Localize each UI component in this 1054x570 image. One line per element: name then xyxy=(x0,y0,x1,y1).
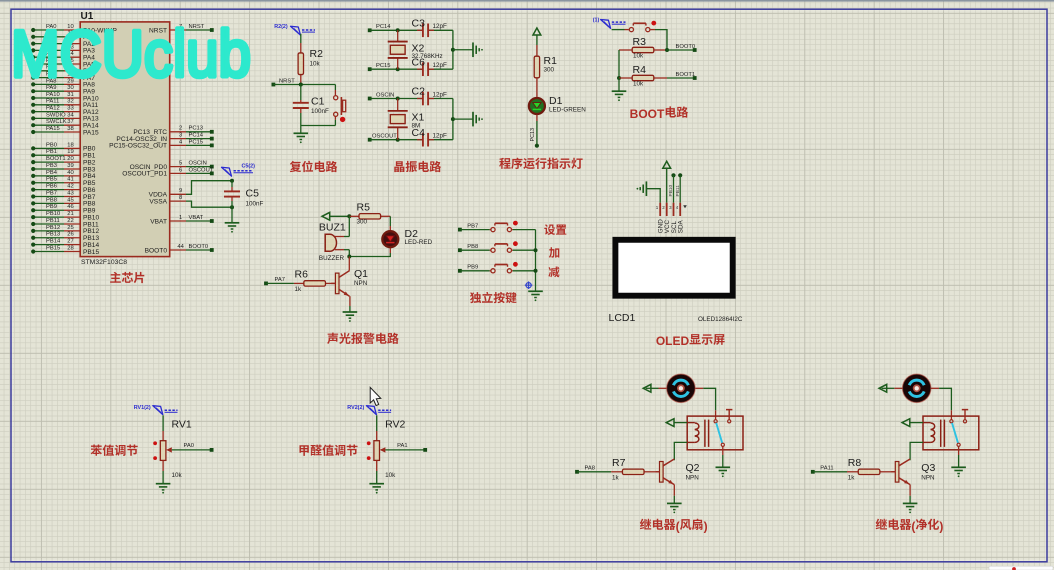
svg-text:R6: R6 xyxy=(295,269,309,281)
svg-text:PA15: PA15 xyxy=(83,129,99,136)
svg-text:PC14: PC14 xyxy=(376,24,391,30)
svg-text:10k: 10k xyxy=(633,81,644,88)
node SDA top xyxy=(678,173,682,177)
svg-text:STM32F103C8: STM32F103C8 xyxy=(81,259,127,266)
svg-text:300: 300 xyxy=(357,219,368,226)
svg-text:D2: D2 xyxy=(405,228,419,240)
svg-text:LED-RED: LED-RED xyxy=(405,239,433,246)
wire pin PA1 xyxy=(64,36,80,38)
wire VDDA to C5 xyxy=(186,181,232,195)
ground reset xyxy=(294,132,309,134)
svg-text:PB3: PB3 xyxy=(46,163,57,169)
wire Q3 emitter xyxy=(909,485,911,496)
label 复位电路 xyxy=(290,161,301,172)
power symbol motor Q2 xyxy=(659,387,667,389)
resistor R2 10k xyxy=(300,34,302,43)
wire keys rail xyxy=(535,230,537,291)
wire pin PB0 xyxy=(64,147,80,149)
wire VSSA to C5 gnd xyxy=(186,201,232,207)
power symbol relay coil xyxy=(687,422,695,424)
svg-text:NRST: NRST xyxy=(279,78,295,84)
wire pin PB7 xyxy=(64,196,80,198)
svg-text:D1: D1 xyxy=(549,95,563,107)
node NRST net label xyxy=(272,83,276,87)
svg-text:R4: R4 xyxy=(633,64,647,76)
svg-text:BUZ1: BUZ1 xyxy=(319,222,346,234)
transistor Q3 NPN xyxy=(895,462,899,483)
node PB7 xyxy=(458,228,462,232)
svg-text:VSSA: VSSA xyxy=(149,198,167,205)
svg-text:10k: 10k xyxy=(633,53,644,60)
relay coil xyxy=(931,423,935,429)
node PC15 xyxy=(368,67,372,71)
svg-text:PA7: PA7 xyxy=(275,277,286,283)
push button key PB7 xyxy=(490,229,491,231)
ground Q1 xyxy=(343,311,358,313)
svg-text:OSCIN: OSCIN xyxy=(376,92,394,98)
svg-text:Q2: Q2 xyxy=(686,462,700,474)
svg-text:R3: R3 xyxy=(633,36,647,48)
wire pin PB9 xyxy=(64,209,80,211)
wire pin PA0 xyxy=(64,29,80,31)
svg-text:R8: R8 xyxy=(848,457,862,469)
svg-text:10k: 10k xyxy=(385,472,396,479)
svg-text:10k: 10k xyxy=(310,61,321,68)
node OSCIN xyxy=(368,97,372,101)
ground crystal X2 xyxy=(472,42,474,57)
LCD1 pin 2 VCC xyxy=(666,203,668,216)
ground under C5 xyxy=(225,222,240,224)
push button reset xyxy=(334,85,336,91)
transistor Q2 NPN xyxy=(660,462,664,483)
wire pin PB10 xyxy=(64,216,80,218)
svg-text:PB0: PB0 xyxy=(46,142,57,148)
node VCC alarm xyxy=(347,214,351,218)
node PA1 xyxy=(385,449,425,451)
label 设置 xyxy=(544,224,555,235)
svg-text:NPN: NPN xyxy=(354,280,368,287)
potentiometer RV2 10k xyxy=(376,415,378,431)
label 程序运行指示灯 xyxy=(499,158,510,169)
LCD1 pin 1 GND xyxy=(659,203,661,216)
svg-text:PB12: PB12 xyxy=(46,225,60,231)
wire pin PA6 xyxy=(64,70,80,72)
wire pin PA7 xyxy=(64,77,80,79)
svg-text:BOOT: BOOT xyxy=(630,107,665,121)
svg-text:39: 39 xyxy=(67,163,73,169)
svg-text:37: 37 xyxy=(67,119,73,125)
svg-text:PB14: PB14 xyxy=(46,239,61,245)
svg-text:PB4: PB4 xyxy=(46,170,58,176)
svg-text:C2: C2 xyxy=(412,86,426,98)
svg-text:PC13: PC13 xyxy=(530,128,536,142)
ground BOOT xyxy=(618,78,620,91)
wire D1 to PC13 xyxy=(536,115,538,121)
svg-text:44: 44 xyxy=(177,244,184,250)
chip right pin VBAT xyxy=(170,220,186,222)
wire coil to QQ2 xyxy=(687,441,695,443)
pin4 arrow mark xyxy=(683,205,687,208)
capacitor C1 100nF xyxy=(300,85,302,101)
relay coil xyxy=(695,423,699,429)
svg-text:VBAT: VBAT xyxy=(150,218,167,225)
ground Q2 xyxy=(667,502,682,504)
svg-text:RV2: RV2 xyxy=(385,419,405,431)
node PA7 xyxy=(264,282,268,286)
resistor R3 10k xyxy=(619,49,632,51)
wire pin PB15 xyxy=(64,250,80,252)
label 苯值调节 xyxy=(91,445,102,456)
wire pin PA5 xyxy=(64,63,80,65)
node PC14 xyxy=(368,28,372,32)
wire pin PA2 xyxy=(64,43,80,45)
svg-text:VBAT: VBAT xyxy=(189,215,204,221)
cursor label C5(2) xyxy=(222,167,232,176)
svg-text:27: 27 xyxy=(67,239,73,245)
svg-text:C1: C1 xyxy=(311,96,325,108)
svg-text:PB8: PB8 xyxy=(46,197,57,203)
svg-text:R5: R5 xyxy=(357,202,371,214)
svg-text:SWCLK: SWCLK xyxy=(46,119,67,125)
relay NC pin xyxy=(728,420,731,423)
chip right pin VSSA xyxy=(170,200,186,202)
svg-text:PC13: PC13 xyxy=(189,126,204,132)
svg-text:PB1: PB1 xyxy=(46,149,57,155)
chip right pin PC13_RTC xyxy=(170,131,186,133)
resistor R1 300 xyxy=(536,35,538,45)
top window strip xyxy=(0,0,1054,2)
ground relay switch xyxy=(716,466,731,468)
svg-text:28: 28 xyxy=(67,245,73,251)
chip right pin NRST xyxy=(170,29,186,31)
svg-text:PA12: PA12 xyxy=(46,106,60,112)
node PB8 xyxy=(458,248,462,252)
svg-text:34: 34 xyxy=(67,112,74,118)
svg-text:RV1(2): RV1(2) xyxy=(134,405,151,411)
svg-text:Q3: Q3 xyxy=(921,462,935,474)
origin marker xyxy=(526,283,531,288)
svg-text:PB11: PB11 xyxy=(46,218,60,224)
relay RL Q3 box xyxy=(923,416,979,450)
svg-text:42: 42 xyxy=(67,184,73,190)
svg-text:1k: 1k xyxy=(848,475,856,482)
svg-text:31: 31 xyxy=(67,92,73,98)
svg-text:PC15-OSC32_OUT: PC15-OSC32_OUT xyxy=(109,143,167,150)
svg-text:C6: C6 xyxy=(412,56,426,68)
svg-text:PA8: PA8 xyxy=(585,465,596,471)
ground Q3 xyxy=(903,502,918,504)
wire pin PA3 xyxy=(64,49,80,51)
svg-text:300: 300 xyxy=(544,67,555,74)
svg-text:3: 3 xyxy=(179,133,182,139)
svg-text:OLED: OLED xyxy=(656,334,690,348)
label 继电器(风扇) xyxy=(640,519,651,530)
potentiometer RV1 10k xyxy=(162,415,164,431)
chip right pin BOOT0 xyxy=(170,249,186,251)
svg-text:46: 46 xyxy=(67,204,73,210)
svg-text:8: 8 xyxy=(179,195,182,201)
svg-text:6: 6 xyxy=(179,167,182,173)
svg-text:20: 20 xyxy=(67,156,73,162)
wire motor to relay xyxy=(695,387,703,389)
svg-text:12pF: 12pF xyxy=(433,62,448,69)
svg-text:LED-GREEN: LED-GREEN xyxy=(549,107,586,114)
tooltip corner xyxy=(989,566,1053,570)
relay RL Q2 box xyxy=(687,416,743,450)
capacitor C2 12pF xyxy=(417,98,423,100)
wire pin PB4 xyxy=(64,175,80,177)
svg-text:26: 26 xyxy=(67,232,73,238)
wire pin PB14 xyxy=(64,244,80,246)
svg-text:2: 2 xyxy=(179,126,182,132)
node BOOT1 xyxy=(693,76,697,80)
svg-text:SWDIO: SWDIO xyxy=(46,112,66,118)
svg-text:C5: C5 xyxy=(246,188,260,200)
op-amp U1 STM32F103C8 chip body xyxy=(80,22,170,257)
power symbol OLED xyxy=(663,161,671,168)
crystal X2 32.768KHz xyxy=(397,30,399,41)
svg-text:R2(2): R2(2) xyxy=(274,24,288,30)
svg-text:PB13: PB13 xyxy=(46,232,60,238)
svg-text:PA11: PA11 xyxy=(820,465,833,471)
svg-text:18: 18 xyxy=(67,142,73,148)
svg-text:21: 21 xyxy=(67,211,73,217)
svg-text:25: 25 xyxy=(67,225,73,231)
svg-text:12pF: 12pF xyxy=(433,23,448,30)
chip right pin VDDA xyxy=(170,193,186,195)
label 继电器(净化) xyxy=(876,519,887,530)
svg-text:BUZZER: BUZZER xyxy=(319,255,345,262)
svg-text:PB9: PB9 xyxy=(46,204,57,210)
svg-text:43: 43 xyxy=(67,190,73,196)
crystal X1 8M xyxy=(397,99,399,111)
relay switch xyxy=(950,420,953,423)
power symbol relay coil xyxy=(923,422,931,424)
svg-text:100nF: 100nF xyxy=(311,108,329,115)
svg-text:C3: C3 xyxy=(412,18,426,30)
svg-text:C5(2): C5(2) xyxy=(242,163,256,169)
wire Q2 emitter xyxy=(673,485,675,496)
wire crystal right rail xyxy=(452,30,454,69)
node SCL top xyxy=(671,173,675,177)
resistor R5 300 xyxy=(349,215,359,217)
svg-text:PC14: PC14 xyxy=(189,133,204,139)
motor fan Q2 xyxy=(667,374,695,402)
svg-text:41: 41 xyxy=(67,177,73,183)
svg-text:40: 40 xyxy=(67,170,73,176)
svg-text:PA15: PA15 xyxy=(46,126,60,132)
node PA0 xyxy=(172,449,212,451)
svg-text:OLED12864I2C: OLED12864I2C xyxy=(698,316,743,323)
wire pin PA9 xyxy=(64,90,80,92)
wire R3-R4 left rail xyxy=(618,50,620,78)
svg-text:): ) xyxy=(704,519,708,533)
push button key PB8 xyxy=(490,249,491,251)
push button BOOT xyxy=(612,29,625,31)
node PA11 xyxy=(811,470,815,474)
svg-text:BOOT1: BOOT1 xyxy=(676,72,696,78)
wire pin PA13 xyxy=(64,117,80,119)
svg-text:R2: R2 xyxy=(310,48,324,60)
wire pin PB11 xyxy=(64,223,80,225)
wire crystal right rail xyxy=(452,99,454,140)
chip right pin OSCOUT_PD1 xyxy=(170,172,186,174)
capacitor C5 100nF xyxy=(231,181,233,187)
ground OLED sideways xyxy=(645,181,647,196)
svg-text:10k: 10k xyxy=(172,472,183,479)
svg-text:SDA: SDA xyxy=(678,219,685,233)
ground keys xyxy=(528,290,543,292)
resistor R7 1k xyxy=(611,471,622,473)
svg-text:OSCOUT: OSCOUT xyxy=(189,167,214,173)
wire pin PB1 xyxy=(64,154,80,156)
svg-text:OSCIN: OSCIN xyxy=(189,161,207,167)
wire pin PA10 xyxy=(64,97,80,99)
svg-text:PB11: PB11 xyxy=(675,185,681,197)
wire pin PB2 xyxy=(64,161,80,163)
wire pin PB12 xyxy=(64,230,80,232)
motor fan Q3 xyxy=(903,374,931,402)
svg-text:22: 22 xyxy=(67,218,73,224)
label 声光报警电路 xyxy=(327,333,338,344)
svg-text:100nF: 100nF xyxy=(246,201,264,208)
wire reset bottom rail xyxy=(301,125,336,127)
svg-text:5: 5 xyxy=(179,161,182,167)
svg-text:BOOT1: BOOT1 xyxy=(46,156,66,162)
power symbol indicator xyxy=(533,28,541,35)
LCD1 OLED display xyxy=(615,240,732,296)
svg-text:9: 9 xyxy=(179,188,182,194)
node alarm collector xyxy=(347,255,351,259)
wire Q1 emitter to gnd xyxy=(349,296,351,306)
svg-text:PB6: PB6 xyxy=(46,184,57,190)
svg-text:PB15: PB15 xyxy=(46,245,60,251)
svg-text:LCD1: LCD1 xyxy=(609,312,636,324)
wire pin PA14 xyxy=(64,124,80,126)
svg-text:PC15: PC15 xyxy=(376,63,391,69)
wire pin PA11 xyxy=(64,104,80,106)
svg-text:PB7: PB7 xyxy=(46,190,57,196)
label 甲醛值调节 xyxy=(299,445,308,456)
svg-text:PA1: PA1 xyxy=(397,443,408,449)
svg-text:BOOT0: BOOT0 xyxy=(189,244,209,250)
svg-text:NPN: NPN xyxy=(686,474,700,481)
mouse cursor xyxy=(370,387,381,405)
wire pin PA12 xyxy=(64,111,80,113)
svg-text:33: 33 xyxy=(67,106,73,112)
power symbol alarm xyxy=(322,212,330,220)
ground RV1 xyxy=(162,460,164,471)
svg-text:45: 45 xyxy=(67,197,73,203)
node OSCOUT xyxy=(368,138,372,142)
wire pin PB6 xyxy=(64,189,80,191)
wire pin PA8 xyxy=(64,83,80,85)
svg-text:32: 32 xyxy=(67,99,73,105)
svg-text:PB10: PB10 xyxy=(668,184,674,196)
ground relay switch xyxy=(951,466,966,468)
svg-text:MCUclub: MCUclub xyxy=(11,17,251,91)
wire pin PA4 xyxy=(64,56,80,58)
svg-text:PA11: PA11 xyxy=(46,99,59,105)
svg-text:38: 38 xyxy=(67,126,73,132)
resistor R6 1k xyxy=(294,282,304,284)
svg-text:OSCOUT_PD1: OSCOUT_PD1 xyxy=(122,171,167,178)
svg-text:1: 1 xyxy=(179,215,182,221)
resistor R8 1k xyxy=(847,471,858,473)
power symbol motor Q3 xyxy=(894,387,902,389)
svg-text:OSCOUT: OSCOUT xyxy=(372,134,397,140)
svg-text:PA10: PA10 xyxy=(46,92,60,98)
svg-text:PA0: PA0 xyxy=(184,443,195,449)
capacitor C4 12pF xyxy=(417,139,423,141)
wire motor to relay xyxy=(931,387,939,389)
wire pin PA15 xyxy=(64,131,80,133)
wire pin PB8 xyxy=(64,202,80,204)
wire coil to QQ3 xyxy=(923,441,931,443)
svg-text:PB10: PB10 xyxy=(46,211,60,217)
svg-text:RV1: RV1 xyxy=(172,419,192,431)
svg-text:1k: 1k xyxy=(295,286,303,293)
svg-text:PB8: PB8 xyxy=(467,244,478,250)
LCD1 pin 4 SDA xyxy=(679,203,681,216)
svg-text:BOOT0: BOOT0 xyxy=(145,247,168,254)
capacitor C6 12pF xyxy=(417,68,423,70)
svg-text:RV2(2): RV2(2) xyxy=(347,405,364,411)
svg-text:BOOT0: BOOT0 xyxy=(676,44,696,50)
svg-text:PC15: PC15 xyxy=(189,139,204,145)
wire OLED GND xyxy=(647,189,661,203)
wire D2 down xyxy=(389,248,391,253)
svg-text:Q1: Q1 xyxy=(354,268,368,280)
svg-text:NPN: NPN xyxy=(921,474,935,481)
svg-text:(1): (1) xyxy=(593,18,600,24)
node PA8 xyxy=(575,470,579,474)
svg-text:(: ( xyxy=(911,519,915,533)
chip right pin PC14-OSC32_IN xyxy=(170,138,186,140)
wire pin PB13 xyxy=(64,237,80,239)
svg-text:PB9: PB9 xyxy=(467,265,478,271)
svg-text:19: 19 xyxy=(67,149,73,155)
wire pin PB5 xyxy=(64,182,80,184)
relay NC pin xyxy=(963,420,966,423)
capacitor C3 12pF xyxy=(417,29,423,31)
label 晶振电路 xyxy=(394,161,404,172)
chip right pin PC15-OSC32_OUT xyxy=(170,144,186,146)
svg-text:(: ( xyxy=(676,519,680,533)
label 独立按键 xyxy=(470,292,481,303)
svg-text:): ) xyxy=(939,519,943,533)
led D1 LED-GREEN xyxy=(536,89,538,97)
wire pin PB3 xyxy=(64,168,80,170)
label 减 xyxy=(548,266,559,277)
ground crystal X1 xyxy=(472,112,474,127)
svg-text:12pF: 12pF xyxy=(433,91,448,98)
svg-text:PB5: PB5 xyxy=(46,177,57,183)
led D2 LED-RED xyxy=(389,216,391,226)
chip label 主芯片 xyxy=(110,272,121,283)
resistor R4 10k xyxy=(619,77,632,79)
svg-text:C4: C4 xyxy=(412,127,426,139)
svg-text:R1: R1 xyxy=(544,55,558,67)
label 加 xyxy=(549,247,559,258)
chip right pin OSCIN_PD0 xyxy=(170,166,186,168)
LCD1 pin 3 SCL xyxy=(673,203,675,216)
node BOOT0 xyxy=(667,49,695,51)
relay switch xyxy=(714,420,717,423)
svg-text:1k: 1k xyxy=(612,475,620,482)
push button key PB9 xyxy=(490,270,491,272)
svg-text:PB7: PB7 xyxy=(467,223,478,229)
